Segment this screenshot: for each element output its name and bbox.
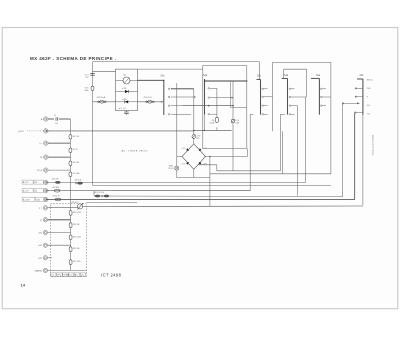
- svg-text:R14 1M: R14 1M: [73, 224, 80, 226]
- svg-text:220: 220: [196, 138, 199, 140]
- svg-text:AU. LINGE JR/52: AU. LINGE JR/52: [122, 149, 149, 152]
- svg-text:R15 1,2M: R15 1,2M: [73, 236, 81, 238]
- svg-text:+R2 82k: +R2 82k: [52, 187, 59, 189]
- svg-text:S2a: S2a: [203, 75, 208, 77]
- svg-text:+CR5: +CR5: [122, 88, 127, 90]
- svg-text:B+TV: B+TV: [23, 191, 29, 193]
- svg-text:OHM: OHM: [64, 275, 69, 277]
- svg-text:R 25: R 25: [85, 87, 89, 89]
- svg-text:+R1 220: +R1 220: [52, 179, 59, 181]
- svg-text:M1: M1: [124, 74, 127, 76]
- svg-text:+R13 2,2k: +R13 2,2k: [143, 97, 152, 99]
- svg-text:R2 6,3: R2 6,3: [168, 168, 173, 170]
- svg-text:400k: 400k: [85, 90, 89, 92]
- svg-text:B+TV2: B+TV2: [23, 199, 31, 201]
- svg-text:47k: 47k: [212, 120, 215, 122]
- svg-text:C2a: C2a: [55, 123, 58, 125]
- svg-text:24F: 24F: [360, 75, 365, 77]
- svg-text:+R3 4,7k: +R3 4,7k: [52, 196, 60, 198]
- svg-text:+CR1: +CR1: [181, 148, 185, 150]
- svg-text:A+TV: A+TV: [23, 181, 29, 184]
- svg-text:C1: C1: [54, 115, 56, 117]
- svg-text:24,0: 24,0: [367, 88, 371, 90]
- svg-text:CO: CO: [69, 275, 72, 277]
- svg-text:R6 4,3k: R6 4,3k: [73, 162, 79, 164]
- svg-text:4,7k: 4,7k: [235, 120, 238, 122]
- svg-text:R4 2,2k: R4 2,2k: [73, 136, 79, 138]
- svg-text:R5 7k: R5 7k: [73, 149, 78, 151]
- svg-text:MX 462F . SCHEMA DE PRINCIPE: MX 462F . SCHEMA DE PRINCIPE .: [30, 56, 116, 61]
- svg-text:+R12 2mA: +R12 2mA: [96, 96, 106, 99]
- svg-text:+CR4: +CR4: [181, 164, 185, 166]
- svg-text:14: 14: [21, 283, 26, 288]
- svg-text:10W: 10W: [235, 123, 239, 125]
- svg-text:+RV 470: +RV 470: [71, 202, 78, 204]
- svg-text:AR16: AR16: [169, 165, 173, 168]
- svg-text:ICT 2498: ICT 2498: [101, 273, 122, 278]
- svg-text:ICI: ICI: [52, 275, 55, 277]
- svg-text:+CR3: +CR3: [202, 164, 206, 166]
- svg-text:MV 1,5: MV 1,5: [367, 79, 373, 81]
- svg-text:S4a: S4a: [316, 75, 321, 77]
- svg-text:+CR2: +CR2: [202, 148, 206, 150]
- svg-text:MASSE: MASSE: [35, 269, 43, 272]
- svg-text:C7 2: C7 2: [85, 74, 89, 76]
- svg-text:R13 4,7M: R13 4,7M: [73, 212, 81, 214]
- svg-text:+R8 1,2k 10k: +R8 1,2k 10k: [93, 192, 104, 194]
- svg-text:al 4 , al 7: al 4 , al 7: [119, 108, 127, 110]
- svg-text:Tension secteur 110/220: Tension secteur 110/220: [372, 135, 375, 155]
- svg-text:S1b: S1b: [161, 76, 166, 78]
- svg-text:R16 39k: R16 39k: [73, 248, 80, 250]
- svg-text:R17 100k: R17 100k: [73, 261, 81, 263]
- svg-text:+CR6: +CR6: [122, 99, 127, 101]
- svg-text:S3a: S3a: [284, 75, 289, 77]
- svg-text:OC+6: OC+6: [37, 170, 43, 172]
- svg-text:R7 100k: R7 100k: [73, 173, 80, 175]
- svg-text:(-)12V: (-)12V: [18, 131, 24, 133]
- svg-text:+R11: +R11: [196, 135, 200, 137]
- svg-text:S2b: S2b: [257, 76, 262, 78]
- svg-text:+R5 1,5k: +R5 1,5k: [74, 179, 82, 181]
- svg-text:0,25W: 0,25W: [209, 123, 214, 125]
